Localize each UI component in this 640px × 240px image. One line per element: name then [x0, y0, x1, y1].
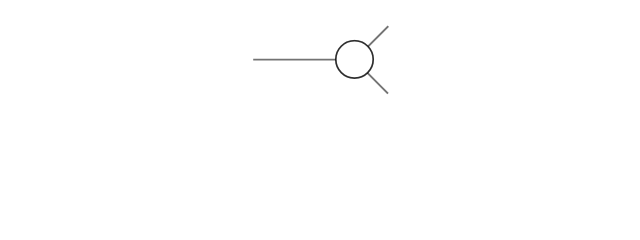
node: circle junction	[336, 41, 373, 78]
wire: upper-right branch	[355, 26, 389, 60]
wire: lower-right branch	[355, 60, 389, 94]
wire: horizontal input lead	[253, 59, 354, 61]
